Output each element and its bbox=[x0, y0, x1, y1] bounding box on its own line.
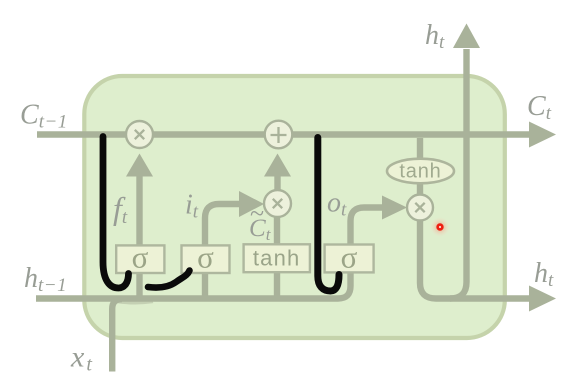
tanh oval bbox=[387, 159, 454, 184]
pen annotation stroke 1 (left J hook) bbox=[103, 137, 129, 289]
wire: branch from cell line down to tanh oval bbox=[417, 138, 423, 160]
arrowhead: h_t right bbox=[529, 286, 556, 312]
sigma layer box 2 (input gate) bbox=[182, 240, 230, 275]
svg-text:σ: σ bbox=[197, 240, 214, 275]
svg-text:tanh: tanh bbox=[253, 246, 301, 271]
wire: candidate tanh branch down to main line bbox=[274, 272, 280, 296]
arrowhead: output gate into output x operator bbox=[382, 196, 407, 220]
svg-text:σ: σ bbox=[341, 240, 358, 275]
wire: x_t merge tail (faint) bbox=[117, 302, 153, 303]
+ operator (on cell line) bbox=[265, 121, 293, 149]
svg-text:~: ~ bbox=[250, 199, 264, 228]
tanh layer box (candidate) bbox=[244, 244, 310, 272]
arrowhead: C_t right bbox=[529, 122, 556, 148]
red cursor dot with glow bbox=[430, 217, 450, 237]
sigma layer box 1 (forget gate) bbox=[116, 240, 164, 275]
x operator (forget, on cell line) bbox=[126, 121, 153, 148]
arrowhead: input x operator into + operator bbox=[264, 154, 291, 177]
wire: h_t branch up through cell top bbox=[450, 49, 467, 299]
wire: tanh oval to output x operator bbox=[417, 183, 423, 195]
wire: forget gate output up to x operator bbox=[136, 176, 142, 245]
wire: candidate tanh output up to x operator bbox=[274, 217, 280, 244]
x operator (output gate product) bbox=[407, 195, 433, 221]
arrowhead: input gate into x operator bbox=[239, 191, 264, 217]
wire: input gate branch down to main line bbox=[202, 273, 208, 297]
arrowhead: h_t up bbox=[453, 24, 480, 49]
wire: output x operator down and right to h_t exit bbox=[420, 220, 531, 299]
arrowhead: forget gate into x operator bbox=[126, 154, 153, 177]
cell state line C (top horizontal) bbox=[37, 131, 531, 137]
svg-text:tanh: tanh bbox=[399, 161, 441, 183]
sigma layer box 3 (output gate) bbox=[325, 240, 374, 275]
wire: forget gate branch down to main line bbox=[136, 273, 142, 297]
wire: input x operator up to + operator bbox=[274, 176, 280, 190]
svg-text:σ: σ bbox=[132, 240, 149, 275]
wire: output gate output curving right into output x operator bbox=[351, 208, 385, 247]
wire: x_t input from bottom bbox=[112, 299, 122, 372]
wire: h_t-1 / x_t main line (bottom) curving up into output gate branch bbox=[36, 272, 351, 299]
pen annotation stroke 2 (small curve under sigma 2) bbox=[148, 271, 190, 288]
pen annotation stroke 3 (right J hook) bbox=[318, 138, 339, 292]
wire: input gate output curving right into x operator bbox=[205, 204, 240, 245]
LSTM cell body bbox=[84, 76, 505, 338]
x operator (input gate product) bbox=[264, 190, 291, 217]
